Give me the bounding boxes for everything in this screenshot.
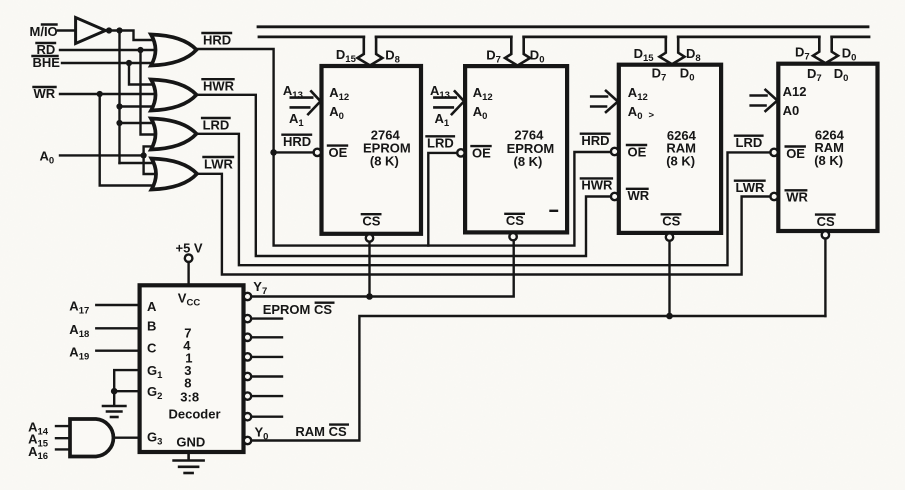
input label M/IO <box>30 24 58 39</box>
wire M/IO vertical distribution <box>118 31 120 164</box>
svg-text:M/IO: M/IO <box>30 24 58 39</box>
U2 address arrow A13..A1 <box>434 91 464 114</box>
decoder pin G1 <box>147 363 163 381</box>
AND gate G5 (A14.A15.A16) <box>70 419 113 457</box>
svg-text:LWR: LWR <box>204 156 233 171</box>
wire M/IO branch to gate G2 <box>120 105 158 107</box>
U2 pin CS <box>505 213 524 240</box>
net label Y7 <box>253 279 267 297</box>
decoder output 2 bubble and stub <box>244 315 282 322</box>
bus arrow into U4 (D7..D0) <box>813 37 838 63</box>
svg-text:HRD: HRD <box>283 134 311 149</box>
U4 address arrow <box>751 90 778 111</box>
wire G1 to ground <box>114 370 139 391</box>
EPROM U2 box 2764 <box>465 66 567 232</box>
U2 label D7 <box>486 48 501 66</box>
wire HRD branch to U1 OE <box>274 151 314 153</box>
EPROM U1 box 2764 <box>322 66 422 234</box>
input label A18 <box>69 322 89 340</box>
svg-text:LWR: LWR <box>736 180 765 195</box>
junction dot M/IO branch G2 <box>116 103 122 109</box>
svg-text:CS: CS <box>662 214 680 229</box>
junction dot BHE branch <box>126 60 132 66</box>
svg-text:LRD: LRD <box>203 117 230 132</box>
svg-text:HWR: HWR <box>203 79 235 94</box>
bus arrow into U2 (D7..D0) <box>505 37 530 66</box>
U3 label D15 <box>634 46 655 64</box>
svg-text:CS: CS <box>817 214 835 229</box>
+5 V supply terminal <box>176 241 203 286</box>
U4 inner text D7 <box>807 66 822 84</box>
junction dot WR branch <box>97 91 103 97</box>
U1 inner text EPROM <box>363 141 411 156</box>
U1 pin OE <box>314 145 348 160</box>
junction dot A0 branch <box>141 152 147 158</box>
junction dot G1/G2 <box>111 388 118 395</box>
U4 pin CS <box>816 214 835 239</box>
net label LRD at U4 <box>735 135 762 150</box>
decoder pin A <box>147 299 157 314</box>
svg-text:(8 K): (8 K) <box>370 154 399 169</box>
junction dot RAM CS at U3 <box>666 313 673 320</box>
U3 inner text D0 <box>680 65 695 83</box>
svg-text:WR: WR <box>628 188 650 203</box>
wire AND output to decoder G3 <box>115 437 140 439</box>
net label HWR at U3 <box>581 178 613 193</box>
net label Y0 <box>255 425 269 443</box>
U3 inner text A0 <box>628 104 655 122</box>
svg-text:(8 K): (8 K) <box>814 153 843 168</box>
decoder pin B <box>147 318 156 333</box>
wire A0 branch up to gate G3 <box>144 146 157 155</box>
net label LRD <box>202 117 229 132</box>
U2 label D0 <box>530 48 545 66</box>
OR gate G3 (LRD) <box>151 119 197 150</box>
wire G2 to ground <box>114 391 139 405</box>
decoder output 6 bubble and stub <box>244 392 282 399</box>
svg-text:OE: OE <box>628 144 647 159</box>
svg-text:3:8: 3:8 <box>180 390 199 405</box>
U3 inner text RAM <box>666 141 696 156</box>
U1 inner text (8 K) <box>370 154 399 169</box>
U1 inner text 2764 <box>371 128 401 143</box>
U4 pin WR <box>770 190 808 205</box>
svg-text:LRD: LRD <box>427 136 454 151</box>
wire A0 branch down to gate G4 <box>144 155 158 174</box>
U4 label D7 <box>795 45 810 63</box>
U4 inner text A12 <box>783 84 807 99</box>
decoder output 7 bubble and stub <box>244 413 282 420</box>
svg-text:HRD: HRD <box>203 32 231 47</box>
U1 inner text A12 <box>329 85 349 103</box>
decoder output 3 bubble and stub <box>244 334 282 341</box>
junction dot EPROM CS at U1 <box>366 293 373 300</box>
input label A17 <box>69 299 89 317</box>
decoder pin G2 <box>147 384 162 402</box>
svg-text:A: A <box>147 299 157 314</box>
U3 inner text D7 <box>652 65 667 83</box>
U2 inner text EPROM <box>507 141 555 156</box>
wire A0 <box>60 154 144 156</box>
U4 inner text 6264 <box>815 127 845 142</box>
wire A18 to decoder B <box>96 327 139 329</box>
wire RD to gate G1 <box>60 49 157 51</box>
wire U3 CS drop <box>668 241 670 316</box>
junction dot HRD at U1 OE <box>270 149 277 156</box>
U4 inner text (8 K) <box>814 153 843 168</box>
decoder pin GND <box>176 434 205 449</box>
svg-text:LRD: LRD <box>736 135 763 150</box>
svg-text:GND: GND <box>176 434 205 449</box>
svg-text:C: C <box>147 340 157 355</box>
OR gate G1 (HRD) <box>151 35 197 66</box>
input label A19 <box>69 345 89 363</box>
address bus (upper horizontal bus line) <box>258 25 868 28</box>
input label A14 <box>28 420 49 438</box>
wire A16 to AND <box>56 448 70 450</box>
svg-text:RAM CS: RAM CS <box>295 424 347 439</box>
input label A16 <box>28 444 48 462</box>
input label RD <box>37 42 56 57</box>
net label RAM CS <box>295 424 347 439</box>
decoder ground symbol <box>174 452 204 473</box>
U3 inner text 6264 <box>667 128 697 143</box>
U1 arrow label A13 <box>283 83 303 101</box>
input label A0 <box>40 149 55 167</box>
svg-text:OE: OE <box>329 145 348 160</box>
U1 arrow label A1 <box>289 111 304 129</box>
U1 address arrow A13..A1 <box>291 91 321 114</box>
wire U2 OE drop to HRD line <box>428 153 457 246</box>
U4 inner text D0 <box>834 66 849 84</box>
wire M/IO branch to gate G3 <box>120 122 158 124</box>
inverter U5 <box>76 18 106 44</box>
U4 inner text A0 <box>783 103 800 118</box>
wire A15 to AND <box>56 437 70 439</box>
wire HRD net: gate G1 to EPROM U1 OE, U2 OE branch and RAM U3 OE <box>197 49 611 246</box>
U2 inner text A0 <box>473 104 488 122</box>
svg-text:8: 8 <box>184 376 191 391</box>
wire A14 to AND <box>56 425 70 427</box>
data bus (lower horizontal bus line) <box>259 36 869 39</box>
wire BHE to gate G1 <box>62 62 157 64</box>
svg-text:HWR: HWR <box>581 178 613 193</box>
U4 inner text RAM <box>814 140 844 155</box>
wire U1 CS drop <box>368 242 370 297</box>
U3 pin WR <box>611 188 650 203</box>
bus arrow into U1 (D15..D8) <box>358 37 383 66</box>
U4 label D0 <box>842 45 857 63</box>
junction dot RD branch <box>137 47 143 53</box>
svg-text:Decoder: Decoder <box>169 406 221 421</box>
wire U4 CS drop <box>824 239 826 316</box>
U1 pin CS <box>362 214 381 242</box>
wire M/IO to inverter <box>58 29 76 31</box>
decoder output 4 bubble and stub <box>244 353 282 360</box>
U3 inner text A12 <box>628 85 648 103</box>
net label HRD at U1 <box>283 134 312 149</box>
wire LRD net: gate G3 to RAM U4 OE <box>197 134 771 265</box>
U2 pin OE <box>457 146 491 161</box>
decoder pin C <box>147 340 157 355</box>
wire HWR net: gate G2 to RAM U3 WR <box>197 95 611 256</box>
decoder pin G3 <box>147 429 162 447</box>
RAM U3 box 6264 <box>619 65 721 233</box>
U4 pin OE <box>770 146 805 161</box>
wire RAM CS net (Y0): decoder to U3 and U4 CS <box>251 316 825 441</box>
svg-text:EPROM CS: EPROM CS <box>263 302 333 317</box>
U3 address arrow <box>591 91 618 112</box>
decoder output 5 bubble and stub <box>244 373 282 380</box>
U3 inner text (8 K) <box>666 153 695 168</box>
wire A19 to decoder C <box>96 350 139 352</box>
U1 inner text A0 <box>329 104 344 122</box>
input label A15 <box>28 432 49 450</box>
junction dot on inverter output <box>106 27 112 33</box>
svg-text:BHE: BHE <box>33 55 61 70</box>
wire WR to gate G2 <box>60 93 157 95</box>
svg-text:B: B <box>147 318 156 333</box>
svg-text:OE: OE <box>786 146 805 161</box>
net label HRD <box>203 32 232 47</box>
U2 arrow label A1 <box>435 111 450 129</box>
RAM U4 box 6264 <box>778 64 877 231</box>
net label EPROM CS <box>263 302 334 317</box>
U3 pin CS <box>662 214 681 241</box>
input label WR <box>34 86 56 101</box>
input label BHE <box>33 55 61 70</box>
bus arrow into U3 (D15..D8) <box>660 37 685 64</box>
junction dot inverter output / vertical distribution <box>116 27 122 33</box>
net label HWR <box>203 79 235 94</box>
wire RD vertical to gate G3 <box>141 50 158 135</box>
svg-text:A0: A0 <box>783 103 800 118</box>
U2 arrow label A13 <box>430 83 450 101</box>
svg-text:WR: WR <box>34 86 56 101</box>
wire BHE branch to gate G2 <box>129 63 157 85</box>
U2 inner text A12 <box>473 85 493 103</box>
wire M/IO branch to gate G4 <box>120 162 158 164</box>
wire A17 to decoder A <box>96 304 139 306</box>
svg-text:CS: CS <box>362 214 380 229</box>
svg-text:(8 K): (8 K) <box>514 154 543 169</box>
U2 inner text 2764 <box>514 128 544 143</box>
junction dot M/IO branch G3 <box>116 120 122 126</box>
stray mark <box>551 210 558 212</box>
svg-text:OE: OE <box>472 146 491 161</box>
net label LRD at U2 <box>427 136 454 151</box>
net label LWR <box>204 156 234 171</box>
svg-text:(8 K): (8 K) <box>666 153 695 168</box>
U3 label D8 <box>686 46 701 64</box>
svg-text:HRD: HRD <box>581 133 609 148</box>
wire WR vertical to gate G4 <box>100 94 158 186</box>
wire EPROM CS net (Y7): decoder to U1 and U2 CS <box>251 240 514 296</box>
net label LWR at U4 <box>735 180 765 195</box>
U2 inner text (8 K) <box>514 154 543 169</box>
OR gate G4 (LWR) <box>152 159 198 190</box>
svg-text:WR: WR <box>786 190 808 205</box>
decoder inner text 74138 3:8 Decoder <box>169 325 221 421</box>
wire inverter output to gate G1 top input (step) <box>106 31 158 41</box>
decoder U6 74138 box <box>140 285 244 452</box>
decoder pin VCC <box>178 291 201 309</box>
U1 label D8 <box>385 47 400 65</box>
OR gate G2 (HWR) <box>151 80 197 111</box>
decoder output Y0 bubble <box>244 437 251 444</box>
net label HRD at U3 <box>581 133 610 148</box>
wire LWR net: gate G4 to RAM U4 WR <box>197 174 770 275</box>
decoder output Y7 bubble <box>244 293 251 300</box>
svg-text:CS: CS <box>506 213 524 228</box>
U1 label D15 <box>336 47 357 65</box>
svg-text:A12: A12 <box>783 84 807 99</box>
U3 pin OE <box>611 144 647 159</box>
ground symbol G1/G2 <box>103 406 125 417</box>
